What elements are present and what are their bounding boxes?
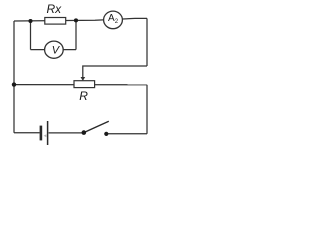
svg-text:Rx: Rx bbox=[47, 2, 63, 16]
svg-text:R: R bbox=[79, 89, 88, 103]
